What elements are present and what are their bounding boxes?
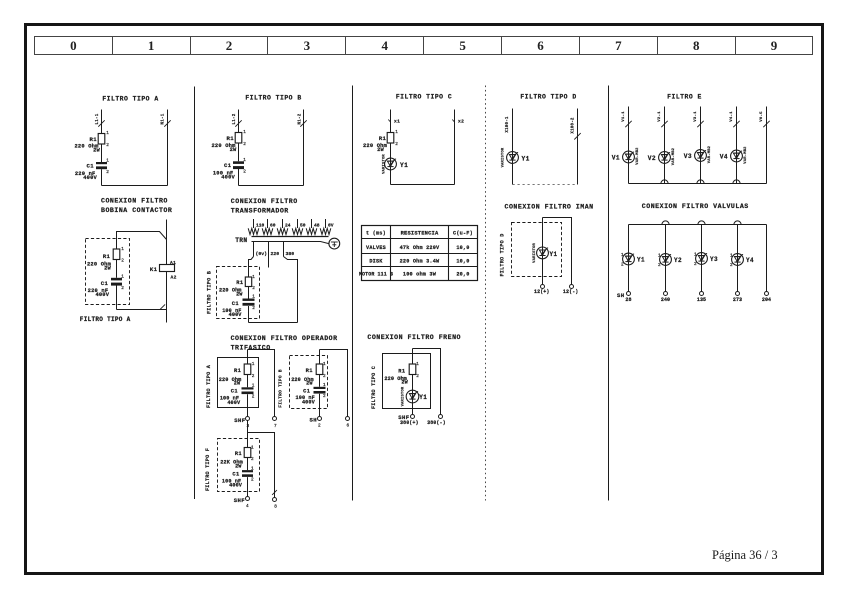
svg-text:380(-): 380(-) [427, 420, 446, 426]
wire transformer primary tap 380 [283, 242, 285, 257]
svg-text:L1-2: L1-2 [233, 113, 237, 124]
node label X2 rotated [572, 117, 576, 134]
value 100 nF 400V (trifasico left) [220, 396, 241, 406]
svg-text:FILTRO TIPO B: FILTRO TIPO B [278, 369, 284, 407]
wire slash mark [160, 304, 165, 309]
title FILTRO TIPO A [102, 96, 158, 103]
svg-text:50: 50 [300, 223, 306, 229]
diode V3 (filtro E) [684, 145, 712, 163]
value 220 Ohm 2W (R1 tipo B) [211, 143, 237, 153]
svg-text:2W: 2W [306, 381, 313, 387]
svg-text:VAR-MB2: VAR-MB2 [636, 147, 640, 165]
svg-text:1: 1 [252, 362, 255, 367]
dashed box filtro tipo A [86, 239, 130, 305]
svg-text:FILTRO TIPO D: FILTRO TIPO D [500, 233, 506, 276]
svg-text:V1-1: V1-1 [622, 111, 626, 122]
svg-text:220: 220 [271, 251, 280, 257]
svg-text:R1: R1 [398, 368, 405, 374]
svg-text:220 Ohm 3.4W: 220 Ohm 3.4W [400, 258, 440, 264]
label tap 50 [300, 223, 306, 229]
wire slash mark [164, 120, 170, 126]
svg-text:VAR-MB2: VAR-MB2 [672, 147, 676, 165]
wire bottom (tipo D) [513, 184, 578, 186]
varistor Y1 (tipo D) [501, 147, 529, 167]
label filtro tipo D rotated (iman) [500, 233, 506, 276]
node label X2 [452, 119, 464, 125]
box filtro (freno) [383, 354, 431, 409]
wire stub from left terminal down [247, 421, 249, 433]
wire 380 tap to right side [284, 257, 298, 323]
svg-text:V1: V1 [612, 155, 620, 162]
wire R1 to C1 (tipo B) [238, 143, 240, 161]
node label rotated (filtro E 2) [658, 111, 662, 122]
wire column separator 4 [608, 86, 610, 501]
svg-text:FILTRO TIPO F: FILTRO TIPO F [205, 448, 211, 491]
svg-text:2: 2 [251, 457, 254, 462]
svg-text:400V: 400V [302, 399, 316, 405]
svg-text:1: 1 [323, 383, 326, 388]
svg-text:1: 1 [323, 362, 326, 367]
svg-text:FILTRO TIPO B: FILTRO TIPO B [245, 95, 301, 102]
svg-text:2: 2 [416, 374, 419, 379]
svg-text:FILTRO TIPO A: FILTRO TIPO A [102, 96, 158, 103]
wire slash mark [574, 133, 580, 139]
wire valve line 3 (filtro E) [700, 107, 702, 150]
node label rotated (filtro E 3) [694, 111, 698, 122]
svg-text:FILTRO E: FILTRO E [667, 94, 702, 101]
wire C1 to bottom (transformador) [248, 306, 250, 323]
terminal right (trifasico bottom) [273, 498, 278, 510]
resistor R1 (tipo B) [226, 130, 246, 147]
svg-text:VALVES: VALVES [366, 245, 386, 251]
svg-text:1: 1 [106, 159, 109, 164]
wire diode Y4 to terminal [737, 265, 739, 291]
wire bus to diode Y3 with hop [698, 221, 705, 253]
svg-text:CONEXION FILTRO VALVULAS: CONEXION FILTRO VALVULAS [642, 203, 749, 210]
value 220 Ohm 2W (trifasico right) [291, 377, 314, 387]
label tap 60 [270, 223, 276, 229]
svg-text:VAR-MB2: VAR-MB2 [744, 146, 748, 164]
svg-text:Y1: Y1 [550, 251, 558, 258]
wire C1 to bottom (tipo B) [238, 169, 240, 186]
label primary 220 [271, 251, 280, 257]
svg-text:R1: R1 [306, 368, 313, 374]
wire top bus (freno) [413, 349, 441, 415]
value 100 nF 400V (trifasico right) [296, 395, 316, 405]
wire K1 to bottom [166, 272, 168, 323]
svg-text:1: 1 [251, 467, 254, 472]
svg-text:BOBINA CONTACTOR: BOBINA CONTACTOR [101, 207, 172, 214]
terminal valve 3 [700, 292, 704, 296]
svg-text:VARISTOR: VARISTOR [533, 242, 537, 262]
svg-text:48: 48 [314, 223, 320, 229]
svg-text:FILTRO TIPO C: FILTRO TIPO C [396, 94, 452, 101]
wire X2 vertical (tipo C) [454, 110, 456, 185]
svg-text:2W: 2W [401, 380, 408, 386]
svg-text:V4-1: V4-1 [730, 111, 734, 122]
svg-text:100 ohm 3W: 100 ohm 3W [403, 272, 437, 278]
svg-text:2: 2 [318, 424, 321, 429]
svg-text:2W: 2W [230, 147, 237, 153]
wire top bus (trifasico bottom) [248, 433, 275, 498]
dashed box filtro tipo D (iman) [512, 223, 562, 277]
svg-text:V2-1: V2-1 [658, 111, 662, 122]
value 220 Ohm 2W (R1 tipo C) [363, 143, 388, 153]
svg-text:1: 1 [251, 446, 254, 451]
svg-text:CONEXION FILTRO: CONEXION FILTRO [101, 198, 168, 205]
svg-text:2: 2 [252, 374, 255, 379]
capacitor C1 (trifasico right) [303, 383, 326, 399]
wire into R1 (trifasico left) [247, 350, 249, 365]
wire Y1 to bottom (tipo C) [390, 170, 392, 185]
wire diode Y3 to terminal [701, 264, 703, 291]
label terminal 240 [661, 297, 670, 303]
wire transformer secondary tap 2 [267, 219, 269, 228]
svg-text:t (ms): t (ms) [366, 230, 386, 236]
svg-text:10,0: 10,0 [456, 245, 469, 251]
value 100 nF 400V (transformador) [222, 308, 242, 318]
wire transformer primary line [252, 242, 329, 244]
varistor Y1 (iman) [533, 242, 558, 262]
value 220 nF 400V (C1 tipo A) [75, 171, 98, 181]
title FILTRO TIPO B [245, 95, 301, 102]
wire R1 to C1 (trifasico right) [319, 375, 321, 387]
diode Y2 (valvulas) [658, 253, 682, 268]
value 220 Ohm 2W (R1 tipo A) [74, 144, 100, 154]
title FILTRO TIPO D [520, 94, 576, 101]
title CONEXION FILTRO OPERADOR TRIFASICO [231, 335, 338, 351]
wire bottom (tipo B) [239, 185, 304, 187]
svg-text:FILTRO TIPO A: FILTRO TIPO A [80, 316, 131, 323]
wire right line (valvulas) [766, 225, 768, 292]
dashed box filtro tipo B (transformador) [217, 267, 260, 319]
svg-text:2: 2 [252, 306, 255, 311]
svg-text:1: 1 [121, 275, 124, 280]
svg-text:380(+): 380(+) [400, 420, 419, 426]
svg-text:N1-2: N1-2 [299, 113, 303, 124]
svg-text:V0-5: V0-5 [760, 111, 764, 122]
wire diode V4 to bus with hop [733, 162, 740, 184]
label tap 24 [285, 223, 291, 229]
svg-text:2W: 2W [235, 463, 242, 469]
resistor R1 (trifasico bottom) [235, 446, 254, 463]
svg-text:VARISTOR: VARISTOR [383, 154, 387, 174]
wire 0V tap to filter chain [249, 257, 254, 278]
wire Y1 to terminal (freno) [412, 403, 414, 414]
svg-text:2: 2 [121, 286, 124, 291]
svg-text:1: 1 [252, 275, 255, 280]
wire C1 to terminal (trifasico right) [319, 394, 321, 417]
node label L1 [233, 113, 237, 124]
capacitor C1 (tipo B) [224, 158, 246, 175]
wire R1 to Y1 (freno) [412, 375, 414, 391]
resistor R1 (tipo C) [379, 130, 399, 147]
svg-text:2: 2 [251, 478, 254, 483]
svg-text:TRANSFORMADOR: TRANSFORMADOR [231, 207, 289, 214]
svg-text:1: 1 [252, 384, 255, 389]
svg-text:FILTRO TIPO A: FILTRO TIPO A [206, 364, 212, 408]
wire into R1 (trifasico bottom) [247, 433, 249, 448]
wire top bus (iman) [543, 218, 572, 285]
svg-text:2: 2 [323, 374, 326, 379]
svg-text:0V: 0V [328, 223, 334, 229]
svg-text:Y1: Y1 [400, 162, 408, 169]
node label X1 rotated [506, 116, 510, 133]
wire Y1 to terminal (iman) [542, 259, 544, 285]
value 220 Ohm 2W (bobina) [87, 261, 112, 271]
node label rotated (filtro E 4) [730, 111, 734, 122]
svg-text:2: 2 [730, 263, 733, 268]
label filtro tipo B rotated [207, 271, 213, 314]
svg-text:110: 110 [256, 223, 265, 229]
wire column separator 1 [194, 87, 196, 500]
wire diode V2 to bus with hop [661, 163, 668, 183]
svg-text:C1: C1 [231, 388, 238, 394]
winding transformer TRN section 1 [248, 228, 259, 234]
svg-text:2W: 2W [236, 292, 243, 298]
wire slash mark [763, 121, 769, 127]
wire transformer secondary tap 3 [282, 219, 284, 228]
svg-text:400V: 400V [221, 175, 235, 181]
svg-text:R1: R1 [235, 451, 242, 457]
svg-text:2: 2 [106, 143, 109, 148]
svg-text:1: 1 [658, 253, 661, 258]
svg-text:MOTOR 111 3: MOTOR 111 3 [359, 272, 393, 278]
wire R1 to C1 (trifasico bottom) [247, 458, 249, 471]
svg-text:SHF: SHF [234, 417, 246, 424]
svg-text:VAR-MB2: VAR-MB2 [708, 145, 712, 163]
svg-text:1: 1 [243, 158, 246, 163]
svg-text:R1: R1 [226, 135, 234, 142]
value 220 nF 400V (bobina) [88, 288, 110, 298]
svg-text:CONEXION FILTRO IMAN: CONEXION FILTRO IMAN [505, 203, 594, 210]
node label rotated (filtro E 1) [622, 111, 626, 122]
value 100 nF 400V (C1 tipo B) [213, 171, 236, 181]
label 380(-) [427, 420, 446, 426]
wire C1 to bottom (tipo A) [101, 169, 103, 185]
terminal valve 5 [765, 292, 769, 296]
svg-text:12(+): 12(+) [534, 289, 550, 295]
wire bus to diode Y2 with hop [662, 221, 669, 254]
wire R1 to C1 (tipo A) [101, 144, 103, 162]
svg-text:C(u-F): C(u-F) [453, 230, 473, 236]
label SH (valvulas) [617, 292, 625, 299]
dashed box filtro (trifasico right) [290, 356, 328, 409]
winding transformer TRN section 6 [320, 228, 331, 234]
wire valve line 2 (filtro E) [664, 107, 666, 152]
svg-text:L1-1: L1-1 [96, 113, 100, 124]
svg-text:SH: SH [617, 292, 625, 299]
svg-text:V3: V3 [684, 153, 692, 160]
svg-text:3: 3 [247, 424, 250, 429]
svg-text:R1: R1 [236, 280, 243, 286]
varistor Y1 (tipo C) [383, 154, 409, 174]
svg-text:4: 4 [246, 504, 249, 509]
wire transformer secondary tap 6 [325, 219, 327, 228]
wire Y1 to bottom (tipo D) [512, 163, 514, 184]
svg-text:12(-): 12(-) [563, 289, 579, 295]
svg-text:Y1: Y1 [522, 155, 530, 162]
node label N1 [299, 113, 303, 124]
label filtro tipo A rotated (trifasico left) [206, 364, 212, 408]
wire diode V3 to bus with hop [697, 161, 704, 183]
label rotated between (trifasico) [278, 369, 284, 407]
wire C1 to bottom (bobina) [116, 285, 118, 309]
wire column separator 2 [352, 86, 354, 501]
svg-text:2: 2 [252, 286, 255, 291]
title CONEXION FILTRO TRANSFORMADOR [231, 198, 298, 215]
terminal 12(-) (iman) [563, 285, 579, 295]
wire slash mark [272, 490, 277, 495]
svg-text:R1: R1 [89, 136, 97, 143]
wire L1 vertical (tipo B) [238, 110, 240, 133]
wire bus to diode Y1 [628, 225, 630, 254]
winding transformer TRN section 2 [262, 228, 273, 234]
svg-text:2: 2 [395, 142, 398, 147]
svg-text:R1: R1 [379, 135, 387, 142]
svg-text:C1: C1 [232, 472, 239, 478]
svg-text:2W: 2W [104, 265, 111, 271]
dashed box filtro (trifasico bottom) [218, 439, 260, 492]
svg-text:V4: V4 [720, 154, 728, 161]
svg-text:10,0: 10,0 [456, 258, 469, 264]
wire transformer secondary tap 1 [253, 219, 255, 228]
wire slash mark [235, 120, 241, 126]
svg-text:1: 1 [121, 247, 124, 252]
svg-text:1: 1 [621, 253, 624, 258]
label primary 380 [286, 251, 295, 257]
wire into Y1 (iman) [542, 218, 544, 248]
wire valve line 1 (filtro E) [628, 107, 630, 152]
svg-text:C1: C1 [101, 280, 109, 287]
wire bottom to coil line (bobina) [117, 309, 167, 311]
svg-text:400V: 400V [229, 483, 243, 489]
wire transformer secondary tap 4 [297, 219, 299, 228]
svg-text:60: 60 [270, 223, 276, 229]
svg-text:2W: 2W [234, 381, 241, 387]
diode V2 (filtro E) [648, 147, 676, 165]
svg-text:Y1: Y1 [419, 394, 427, 401]
svg-text:7: 7 [274, 424, 277, 429]
svg-text:2: 2 [621, 262, 624, 267]
svg-text:Y1: Y1 [637, 257, 645, 264]
svg-text:47k Ohm 220V: 47k Ohm 220V [400, 245, 440, 251]
svg-text:Y2: Y2 [674, 257, 682, 264]
box filtro (trifasico left) [218, 358, 259, 408]
svg-text:VARISTOR: VARISTOR [501, 147, 505, 167]
svg-text:1: 1 [252, 295, 255, 300]
svg-text:(0v): (0v) [256, 251, 268, 257]
wire diode V1 to bus [628, 163, 630, 184]
wire filter tap top [117, 232, 167, 250]
svg-text:FILTRO TIPO D: FILTRO TIPO D [520, 94, 576, 101]
svg-text:28: 28 [625, 297, 631, 303]
wire valve line 4 (filtro E) [736, 107, 738, 151]
wire N1 vertical (tipo A) [167, 110, 169, 186]
wire R1 to C1 (transformador) [248, 287, 250, 299]
wire into R1 (freno) [412, 349, 414, 365]
label filtro tipo A (bobina box) [80, 316, 131, 323]
svg-text:x2: x2 [458, 119, 464, 125]
svg-text:1: 1 [106, 131, 109, 136]
svg-text:2: 2 [252, 395, 255, 400]
wire transformer primary tap 220 [268, 242, 270, 257]
wire transformer core line [252, 236, 329, 238]
resistor R1 (freno) [398, 362, 419, 379]
svg-text:Y4: Y4 [746, 257, 754, 264]
diode V4 (filtro E) [720, 146, 748, 164]
wire transformer primary tap (0v) [253, 242, 255, 257]
terminal 12(+) (iman) [534, 285, 550, 295]
value 100 nF 400V (trifasico bottom) [222, 479, 243, 489]
wire slash mark [697, 121, 703, 127]
svg-text:V2: V2 [648, 155, 656, 162]
earth terminal PE circle [329, 238, 340, 249]
resistor R1 (transformador) [236, 275, 255, 291]
svg-text:A1: A1 [170, 260, 176, 266]
wire 220 stub [268, 257, 270, 268]
wire slash mark [661, 121, 667, 127]
terminal valve 2 [664, 292, 668, 296]
svg-text:2W: 2W [377, 147, 384, 153]
svg-text:1: 1 [730, 253, 733, 258]
diode Y4 (valvulas) [730, 253, 754, 268]
title CONEXION FILTRO VALVULAS [642, 203, 749, 210]
node label rotated (filtro E right) [760, 111, 764, 122]
svg-text:DISK: DISK [369, 258, 383, 264]
wire slash mark [733, 121, 739, 127]
wire top bus (trifasico right) [320, 350, 348, 417]
label terminal 135 [697, 297, 706, 303]
resistor R1 (trifasico left) [234, 362, 255, 379]
svg-text:K1: K1 [150, 266, 158, 273]
wire right line (filtro E) [766, 107, 768, 184]
value 220 Ohm 2W (freno) [384, 376, 408, 386]
wire bottom bus (filtro E) [629, 183, 767, 185]
wire diode Y1 to terminal [628, 265, 630, 292]
svg-text:TRIFASICO: TRIFASICO [231, 344, 271, 351]
label terminal 28 [625, 297, 631, 303]
svg-text:Y3: Y3 [710, 256, 718, 263]
value 220 Ohm 2W (trifasico left) [219, 377, 242, 387]
capacitor C1 (trifasico left) [231, 384, 255, 400]
svg-text:400V: 400V [95, 292, 109, 298]
wire R1 to Y1 (tipo C) [390, 143, 392, 158]
svg-text:24: 24 [285, 223, 291, 229]
label filtro tipo F rotated (trifasico bottom) [205, 448, 211, 491]
wire N1 vertical (tipo B) [303, 110, 305, 186]
label terminal 204 [762, 297, 771, 303]
label primary (0v) [256, 251, 268, 257]
svg-text:CONEXION FILTRO: CONEXION FILTRO [231, 198, 298, 205]
wire X1 vertical (tipo C) [390, 110, 392, 133]
svg-text:VARISTOR: VARISTOR [401, 386, 405, 406]
title CONEXION FILTRO BOBINA CONTACTOR [101, 198, 172, 215]
svg-text:1: 1 [416, 362, 419, 367]
winding transformer TRN section 5 [306, 228, 317, 234]
svg-text:N1-1: N1-1 [162, 113, 166, 124]
label tap 0V [328, 223, 334, 229]
svg-text:380: 380 [286, 251, 295, 257]
terminal SHF0 (freno) [398, 414, 414, 421]
wire slash mark [300, 120, 306, 126]
label 380(+) [400, 420, 419, 426]
terminal right (freno) [439, 415, 443, 419]
node label X1 [388, 119, 400, 125]
wire C1 to terminal (trifasico bottom) [247, 477, 249, 497]
node label L1 [96, 113, 100, 124]
svg-text:2: 2 [243, 170, 246, 175]
